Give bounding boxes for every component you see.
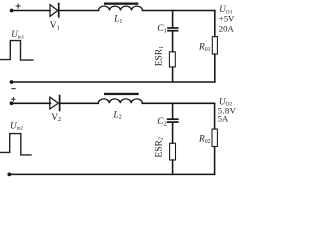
svg-text:20A: 20A — [219, 24, 235, 34]
wire top rail left circuit 2 — [12, 102, 51, 104]
node + terminal input 2 — [10, 101, 14, 105]
wire bottom rail circuit 1 — [12, 81, 215, 83]
wire top rail left (input1 to diode) — [12, 10, 50, 12]
wire capacitor 2 to ESR2 — [172, 123, 174, 143]
inductor L1 — [99, 6, 143, 10]
inductor L2 core bar — [104, 93, 139, 95]
wire right rail top (corner to R01) — [214, 11, 216, 37]
wire capacitor branch top 2 — [172, 103, 174, 118]
wire right rail bottom circuit 2 — [214, 147, 216, 175]
resistor ESR1 — [169, 52, 175, 67]
wire capacitor branch top — [172, 11, 174, 28]
capacitor C2 — [168, 119, 178, 122]
diode V2 — [50, 96, 60, 111]
wire inductor to top-right corner — [143, 10, 215, 12]
node + terminal input 1 — [10, 9, 14, 13]
wire bottom rail circuit 2 — [9, 173, 214, 175]
label + (input 2 positive) — [12, 97, 16, 101]
node - terminal circuit 2 — [7, 173, 11, 177]
waveform input pulse 2 — [1, 134, 32, 155]
svg-text:+5V: +5V — [219, 14, 235, 24]
label - (circuit 1 negative) — [12, 88, 15, 90]
capacitor C1 — [168, 28, 178, 31]
wire diode to inductor — [59, 10, 98, 12]
resistor ESR2 — [170, 143, 176, 160]
wire ESR2 to bottom rail — [172, 160, 174, 174]
node - terminal circuit 1 — [10, 80, 14, 84]
resistor R01 — [212, 37, 217, 55]
diode V1 — [50, 4, 59, 17]
waveform input pulse 1 — [1, 41, 34, 61]
inductor L2 — [98, 99, 142, 103]
wire right rail bottom (R01 to corner) — [214, 54, 216, 82]
inductor L1 core bar — [104, 3, 138, 5]
wire inductor 2 to top-right corner — [142, 102, 214, 104]
wire right rail top circuit 2 — [214, 103, 216, 129]
label + (input 1 positive) — [16, 4, 20, 8]
resistor R02 — [212, 129, 217, 147]
svg-text:5A: 5A — [218, 114, 229, 124]
wire capacitor to ESR1 — [172, 31, 174, 51]
wire ESR1 to bottom rail — [172, 67, 174, 82]
wire diode to inductor 2 — [60, 102, 99, 104]
